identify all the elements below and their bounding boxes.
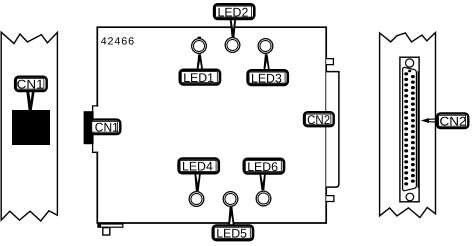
label LED2: [214, 4, 254, 19]
screw hole top: [406, 59, 414, 67]
LED D6 (bottom-right indicator): [256, 191, 271, 206]
connector CN2 pin 1 tick: [408, 70, 411, 72]
svg-text:CN1: CN1: [17, 78, 44, 92]
label CN1 (board): [90, 120, 120, 135]
LED D2 (top-middle indicator): [225, 38, 240, 53]
svg-text:CN2: CN2: [440, 115, 467, 129]
svg-text:CN2: CN2: [307, 113, 330, 127]
connector CN2 D-sub flange (right panel): [400, 57, 419, 202]
svg-text:LED4: LED4: [182, 160, 213, 174]
label LED4: [179, 159, 219, 174]
svg-text:LED3: LED3: [251, 71, 282, 85]
label CN2 (right panel): [437, 113, 468, 128]
LED D1 flat-top mark: [198, 37, 201, 39]
svg-text:LED2: LED2: [218, 5, 249, 19]
connector CN2 D-sub insert: [403, 67, 417, 190]
wire (pointer LED1): [197, 54, 203, 69]
label LED5: [213, 226, 253, 241]
svg-text:LED6: LED6: [247, 160, 278, 174]
board top tab (right edge): [326, 59, 333, 65]
label LED6: [244, 159, 284, 174]
label CN2 (board): [304, 112, 334, 127]
wire (pointer LED2): [230, 19, 236, 37]
screw hole bottom: [406, 193, 414, 201]
wire (pointer LED3): [263, 54, 269, 70]
LED D5 (bottom-middle indicator): [223, 192, 238, 207]
board outline 42466: [97, 27, 326, 223]
board left notch: [93, 106, 100, 152]
wire (pointer LED4): [194, 174, 200, 191]
label CN1 (left panel): [15, 77, 47, 92]
wire (pointer CN1 label to jack): [26, 91, 35, 111]
board bottom foot black block: [97, 223, 101, 227]
board bottom foot bar: [98, 224, 123, 227]
wire (pointer CN2 label to D-sub): [421, 118, 437, 123]
svg-text:CN1: CN1: [95, 121, 119, 135]
right panel (torn bracket strip): [380, 33, 436, 218]
connector CN1 black tab (board left): [84, 111, 94, 144]
left panel (torn bracket strip): [1, 32, 57, 221]
LED D4 (bottom-left indicator): [189, 192, 204, 207]
connector CN2 body (right edge of board): [326, 72, 339, 188]
wire (pointer LED5): [228, 207, 234, 225]
svg-text:LED1: LED1: [183, 71, 214, 85]
board bottom tab (right edge): [326, 196, 334, 202]
svg-text:42466: 42466: [100, 37, 134, 49]
connector CN2 insert inner wall: [417, 71, 419, 188]
LED D1 (top-left indicator): [192, 39, 207, 54]
svg-text:LED5: LED5: [216, 227, 247, 241]
wire (pointer LED6): [259, 174, 265, 190]
label LED3: [248, 70, 288, 85]
LED D3 (top-right indicator): [258, 39, 273, 54]
connector CN1 jack (black square, left panel): [12, 110, 50, 145]
label LED1: [180, 70, 220, 85]
board bottom foot square: [103, 228, 110, 235]
connector CN2 pins (two columns): [404, 72, 415, 185]
